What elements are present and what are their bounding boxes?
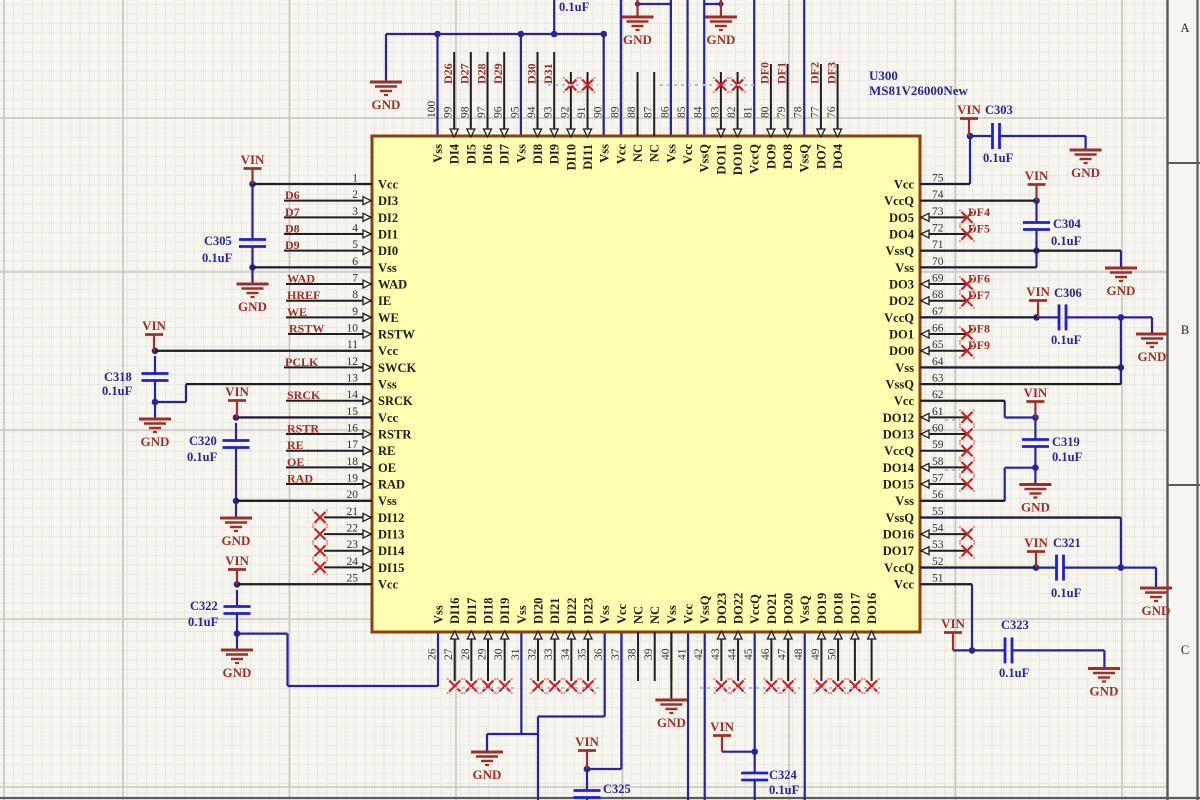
svg-text:75: 75 [932,173,944,185]
svg-text:DI1: DI1 [378,228,398,242]
svg-text:DI21: DI21 [548,598,562,624]
svg-text:67: 67 [932,306,944,318]
svg-text:Vss: Vss [895,261,914,275]
svg-text:52: 52 [932,556,944,568]
svg-text:Vss: Vss [432,605,446,624]
svg-text:0.1uF: 0.1uF [1051,333,1082,347]
svg-text:DO4: DO4 [831,143,845,169]
svg-text:GND: GND [1107,283,1136,298]
svg-text:DI13: DI13 [378,528,404,542]
svg-text:99: 99 [443,106,455,118]
svg-text:81: 81 [743,106,755,118]
svg-text:78: 78 [793,106,805,118]
svg-text:72: 72 [932,223,944,235]
svg-text:61: 61 [932,406,944,418]
svg-text:74: 74 [932,189,944,201]
svg-text:VssQ: VssQ [886,511,915,525]
svg-text:PCLK: PCLK [285,355,319,369]
svg-text:C305: C305 [204,234,232,248]
svg-text:DI22: DI22 [565,598,579,624]
svg-text:54: 54 [932,523,944,535]
svg-text:42: 42 [693,648,705,660]
svg-text:93: 93 [543,106,555,118]
svg-text:56: 56 [932,489,944,501]
svg-text:DI19: DI19 [498,598,512,624]
svg-text:D31: D31 [541,63,555,84]
svg-text:GND: GND [372,97,401,112]
svg-text:C303: C303 [985,103,1013,117]
svg-text:RAD: RAD [287,472,313,486]
svg-text:B: B [1181,323,1189,337]
svg-text:GND: GND [623,32,652,47]
svg-text:25: 25 [347,573,359,585]
svg-text:48: 48 [793,648,805,660]
svg-text:17: 17 [347,439,359,451]
svg-text:VssQ: VssQ [886,244,915,258]
svg-text:24: 24 [347,556,359,568]
svg-text:37: 37 [610,648,622,660]
svg-text:0.1uF: 0.1uF [1052,450,1083,464]
svg-text:DI12: DI12 [378,511,404,525]
svg-text:SRCK: SRCK [378,394,413,408]
svg-text:9: 9 [352,306,358,318]
svg-text:Vss: Vss [515,605,529,624]
svg-text:D8: D8 [285,222,300,236]
svg-text:RAD: RAD [378,478,405,492]
svg-text:D26: D26 [441,63,455,84]
svg-text:WAD: WAD [287,272,315,286]
svg-text:DI14: DI14 [378,544,405,558]
svg-text:43: 43 [710,648,722,660]
svg-text:DO22: DO22 [732,593,746,624]
svg-text:DI8: DI8 [531,144,545,164]
svg-text:DO20: DO20 [782,593,796,624]
svg-text:DO21: DO21 [765,593,779,624]
svg-text:21: 21 [347,506,359,518]
svg-text:94: 94 [526,106,538,118]
svg-text:83: 83 [709,106,721,118]
svg-text:16: 16 [347,423,359,435]
svg-text:4: 4 [352,223,358,235]
svg-text:VIN: VIN [241,152,265,167]
svg-text:RSTW: RSTW [289,322,324,336]
svg-text:DO14: DO14 [883,461,915,475]
svg-text:DO2: DO2 [889,294,914,308]
svg-text:DO11: DO11 [714,144,728,175]
svg-text:Vcc: Vcc [378,578,399,592]
svg-text:84: 84 [693,106,705,118]
svg-text:33: 33 [543,648,555,660]
svg-text:58: 58 [932,456,944,468]
svg-text:Vcc: Vcc [378,344,399,358]
svg-text:C304: C304 [1053,217,1082,231]
svg-text:Vss: Vss [431,144,445,163]
svg-text:VccQ: VccQ [884,194,914,208]
svg-text:DF0: DF0 [758,62,772,84]
svg-text:51: 51 [932,573,944,585]
svg-text:38: 38 [627,648,639,660]
svg-text:Vss: Vss [378,494,397,508]
svg-text:19: 19 [347,473,359,485]
svg-text:0.1uF: 0.1uF [187,450,218,464]
svg-text:DI7: DI7 [498,144,512,164]
svg-text:DF2: DF2 [808,62,822,84]
svg-text:31: 31 [510,648,522,660]
svg-text:D29: D29 [491,63,505,84]
svg-text:26: 26 [427,648,439,660]
svg-text:GND: GND [1142,603,1171,618]
svg-text:86: 86 [659,106,671,118]
svg-text:DI5: DI5 [464,144,478,164]
svg-text:DO17: DO17 [848,593,862,624]
svg-text:DO19: DO19 [815,593,829,624]
svg-text:DI23: DI23 [582,598,596,624]
svg-text:57: 57 [932,473,944,485]
svg-text:49: 49 [810,648,822,660]
svg-text:DO4: DO4 [889,228,915,242]
svg-text:VIN: VIN [1025,168,1049,183]
svg-text:53: 53 [932,539,944,551]
svg-text:15: 15 [347,406,359,418]
svg-text:RSTW: RSTW [378,328,415,342]
svg-text:Vcc: Vcc [894,178,915,192]
svg-text:OE: OE [287,455,304,469]
svg-text:69: 69 [932,273,944,285]
svg-text:VIN: VIN [1023,385,1047,400]
svg-text:DO7: DO7 [814,144,828,169]
svg-text:DO5: DO5 [889,211,914,225]
svg-text:90: 90 [593,106,605,118]
svg-text:39: 39 [643,648,655,660]
svg-text:71: 71 [932,239,944,251]
svg-text:28: 28 [460,648,472,660]
svg-text:DO8: DO8 [781,144,795,169]
svg-text:Vcc: Vcc [615,603,629,624]
svg-text:29: 29 [477,648,489,660]
svg-text:47: 47 [777,648,789,660]
svg-text:97: 97 [476,106,488,118]
svg-text:DO15: DO15 [883,478,914,492]
svg-text:89: 89 [609,106,621,118]
svg-text:C: C [1181,643,1189,657]
svg-text:11: 11 [347,339,358,351]
svg-text:7: 7 [352,273,358,285]
svg-text:DI15: DI15 [378,561,404,575]
svg-text:DI4: DI4 [448,143,462,164]
svg-text:77: 77 [809,106,821,118]
svg-text:3: 3 [352,206,358,218]
svg-text:DF1: DF1 [774,62,788,84]
svg-text:Vss: Vss [598,605,612,624]
svg-text:65: 65 [932,339,944,351]
svg-text:VIN: VIN [225,553,249,568]
svg-text:VccQ: VccQ [748,594,762,624]
svg-text:36: 36 [593,648,605,660]
svg-text:76: 76 [826,106,838,118]
svg-text:DI16: DI16 [448,598,462,624]
svg-text:23: 23 [347,539,359,551]
svg-text:82: 82 [726,106,738,118]
svg-text:VccQ: VccQ [748,144,762,174]
svg-text:DI2: DI2 [378,211,398,225]
svg-text:DO18: DO18 [832,593,846,624]
svg-text:0.1uF: 0.1uF [102,384,133,398]
svg-text:GND: GND [706,32,735,47]
svg-text:DI10: DI10 [564,144,578,170]
svg-text:DO9: DO9 [764,144,778,169]
svg-text:0.1uF: 0.1uF [1051,586,1082,600]
svg-text:Vcc: Vcc [378,411,399,425]
svg-text:NC: NC [631,144,645,162]
svg-text:D9: D9 [285,238,300,252]
svg-text:HREF: HREF [287,288,320,302]
svg-text:SWCK: SWCK [378,361,416,375]
svg-text:GND: GND [1021,500,1050,515]
svg-text:64: 64 [932,356,944,368]
svg-text:95: 95 [509,106,521,118]
svg-text:VccQ: VccQ [884,561,914,575]
svg-text:VIN: VIN [142,318,166,333]
svg-text:DO23: DO23 [715,593,729,624]
svg-text:D30: D30 [524,63,538,84]
svg-text:92: 92 [559,106,571,118]
svg-text:68: 68 [932,289,944,301]
svg-text:Vss: Vss [598,144,612,163]
svg-text:DI0: DI0 [378,244,398,258]
svg-text:NC: NC [648,606,662,624]
svg-text:VIN: VIN [710,719,734,734]
svg-text:A: A [1180,21,1189,35]
svg-text:RE: RE [287,438,304,452]
svg-text:2: 2 [352,189,358,201]
svg-text:79: 79 [776,106,788,118]
svg-text:VssQ: VssQ [798,595,812,624]
svg-text:RSTR: RSTR [378,428,412,442]
svg-text:DI20: DI20 [532,598,546,624]
svg-text:DO12: DO12 [883,411,914,425]
svg-text:WAD: WAD [378,278,407,292]
svg-text:IE: IE [378,294,391,308]
svg-text:45: 45 [743,648,755,660]
svg-text:46: 46 [760,648,772,660]
svg-text:C323: C323 [1001,618,1029,632]
svg-text:30: 30 [493,648,505,660]
svg-text:C306: C306 [1054,286,1082,300]
svg-text:GND: GND [141,434,170,449]
svg-text:VIN: VIN [225,384,249,399]
svg-text:60: 60 [932,423,944,435]
svg-text:91: 91 [576,106,588,118]
svg-text:44: 44 [727,648,739,660]
svg-text:RSTR: RSTR [287,422,319,436]
svg-text:OE: OE [378,461,396,475]
svg-text:MS81V26000New: MS81V26000New [869,83,969,98]
svg-text:87: 87 [643,106,655,118]
svg-text:D27: D27 [458,63,472,84]
svg-text:Vcc: Vcc [894,394,915,408]
svg-text:VIN: VIN [957,102,981,117]
svg-text:C320: C320 [189,434,217,448]
svg-text:GND: GND [223,665,252,680]
svg-text:62: 62 [932,389,944,401]
svg-text:Vss: Vss [664,144,678,163]
svg-text:DI17: DI17 [465,598,479,624]
svg-text:GND: GND [238,299,267,314]
svg-text:Vss: Vss [895,361,914,375]
svg-text:0.1uF: 0.1uF [769,783,800,797]
svg-text:DO0: DO0 [889,344,914,358]
svg-text:DO16: DO16 [883,528,914,542]
svg-text:VIN: VIN [575,734,599,749]
svg-text:100: 100 [426,101,438,119]
svg-text:27: 27 [443,648,455,660]
svg-text:C321: C321 [1053,536,1081,550]
svg-text:Vss: Vss [514,144,528,163]
svg-text:DO17: DO17 [883,544,914,558]
svg-text:0.1uF: 0.1uF [559,0,590,14]
svg-text:Vcc: Vcc [894,578,915,592]
svg-text:VccQ: VccQ [884,444,914,458]
svg-text:40: 40 [660,648,672,660]
svg-text:D6: D6 [285,188,300,202]
svg-text:GND: GND [1071,165,1100,180]
svg-text:Vss: Vss [665,605,679,624]
svg-text:C322: C322 [190,599,218,613]
svg-text:DF3: DF3 [824,62,838,84]
svg-text:GND: GND [1090,684,1119,699]
svg-text:8: 8 [352,289,358,301]
svg-text:98: 98 [459,106,471,118]
svg-text:0.1uF: 0.1uF [202,251,233,265]
svg-text:VssQ: VssQ [698,144,712,173]
svg-text:VssQ: VssQ [798,144,812,173]
svg-text:WE: WE [378,311,399,325]
svg-text:96: 96 [493,106,505,118]
svg-text:C324: C324 [769,768,798,782]
svg-text:10: 10 [347,323,359,335]
svg-text:DI3: DI3 [378,194,398,208]
svg-text:SRCK: SRCK [287,388,321,402]
svg-text:Vcc: Vcc [614,144,628,165]
svg-text:VIN: VIN [1026,284,1050,299]
svg-text:Vcc: Vcc [682,603,696,624]
svg-text:DO10: DO10 [731,144,745,175]
svg-text:20: 20 [347,489,359,501]
svg-text:NC: NC [632,606,646,624]
svg-text:Vcc: Vcc [378,178,399,192]
svg-text:12: 12 [347,356,359,368]
svg-text:GND: GND [222,533,251,548]
svg-text:66: 66 [932,323,944,335]
svg-text:63: 63 [932,373,944,385]
svg-text:0.1uF: 0.1uF [999,666,1030,680]
svg-text:VssQ: VssQ [886,378,915,392]
svg-text:34: 34 [560,648,572,660]
svg-text:0.1uF: 0.1uF [983,151,1014,165]
svg-text:70: 70 [932,256,944,268]
svg-text:C319: C319 [1052,435,1080,449]
svg-text:Vss: Vss [378,261,397,275]
svg-text:C318: C318 [104,370,132,384]
svg-text:DO13: DO13 [883,428,914,442]
svg-text:5: 5 [352,239,358,251]
svg-text:DI18: DI18 [482,598,496,624]
svg-text:1: 1 [352,173,358,185]
svg-text:GND: GND [473,767,502,782]
svg-text:41: 41 [677,648,689,660]
svg-text:VIN: VIN [941,616,965,631]
svg-text:RE: RE [378,444,395,458]
svg-text:55: 55 [932,506,944,518]
svg-text:18: 18 [347,456,359,468]
svg-text:DI11: DI11 [581,144,595,170]
svg-text:50: 50 [827,648,839,660]
svg-text:73: 73 [932,206,944,218]
svg-text:22: 22 [347,523,359,535]
svg-text:85: 85 [676,106,688,118]
svg-text:C325: C325 [603,782,631,796]
svg-text:DI6: DI6 [481,144,495,164]
svg-text:32: 32 [527,648,539,660]
svg-text:U300: U300 [869,68,898,83]
svg-text:59: 59 [932,439,944,451]
svg-text:VIN: VIN [1024,535,1048,550]
svg-text:VssQ: VssQ [698,595,712,624]
svg-text:35: 35 [577,648,589,660]
svg-text:Vss: Vss [378,378,397,392]
svg-text:WE: WE [287,305,307,319]
svg-text:DO1: DO1 [889,328,914,342]
svg-text:GND: GND [1138,349,1167,364]
svg-text:0.1uF: 0.1uF [1051,234,1082,248]
svg-text:D28: D28 [474,63,488,84]
svg-text:GND: GND [657,715,686,730]
svg-text:13: 13 [347,373,359,385]
svg-text:Vss: Vss [895,494,914,508]
svg-text:VccQ: VccQ [884,311,914,325]
svg-text:0.1uF: 0.1uF [188,615,219,629]
svg-text:DO16: DO16 [865,593,879,624]
svg-text:DI9: DI9 [548,144,562,164]
svg-text:Vcc: Vcc [681,144,695,165]
svg-text:NC: NC [648,144,662,162]
svg-text:DO3: DO3 [889,278,914,292]
svg-text:88: 88 [626,106,638,118]
svg-text:14: 14 [347,389,359,401]
svg-text:D7: D7 [285,205,300,219]
svg-text:80: 80 [759,106,771,118]
svg-text:6: 6 [352,256,358,268]
